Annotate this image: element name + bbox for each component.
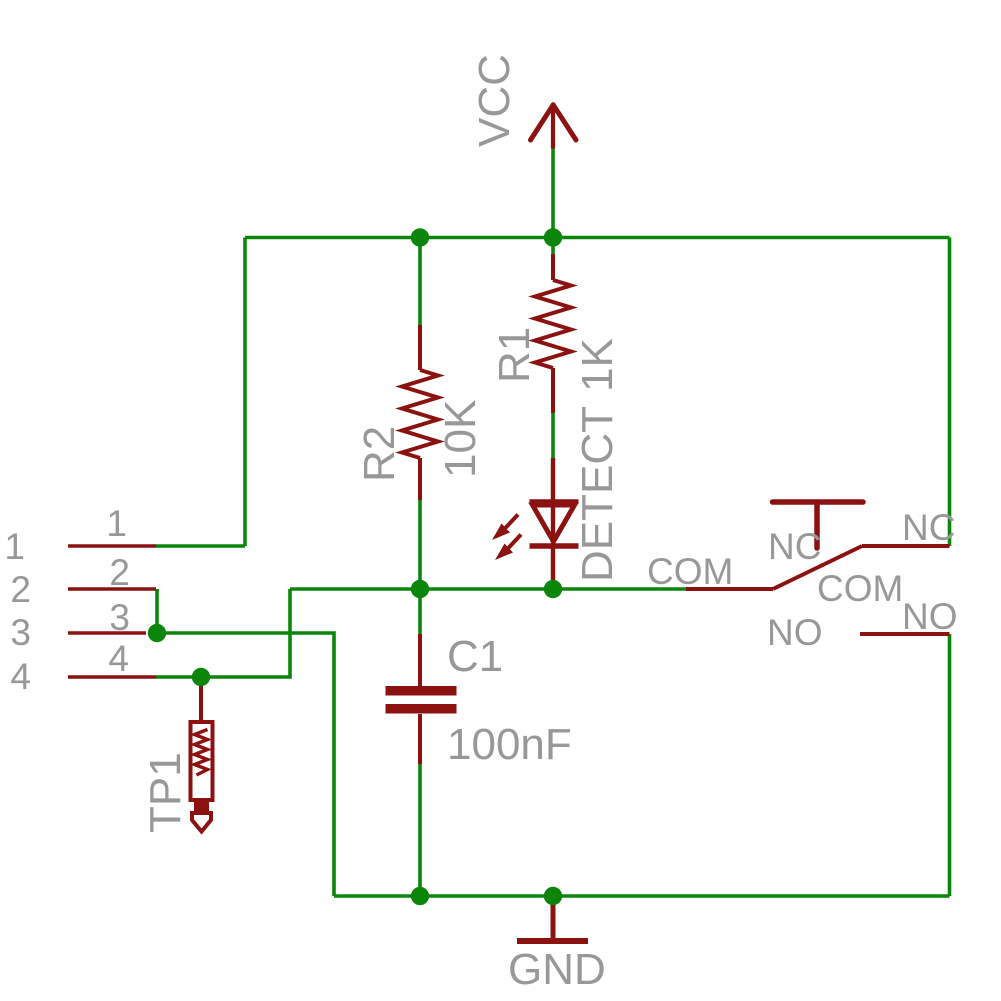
ground symbol GND <box>517 898 588 941</box>
svg-text:C1: C1 <box>447 632 503 681</box>
svg-text:NO: NO <box>902 596 958 637</box>
svg-text:TP1: TP1 <box>141 752 190 833</box>
svg-text:DETECT: DETECT <box>573 406 622 582</box>
svg-text:NC: NC <box>768 526 821 567</box>
pin 4 stub <box>68 675 156 679</box>
wire: right vertical NC net <box>948 238 952 547</box>
svg-text:100nF: 100nF <box>447 720 572 769</box>
svg-text:3: 3 <box>109 597 130 638</box>
capacitor C1 <box>386 634 457 764</box>
test point TP1 <box>191 686 213 800</box>
svg-text:R1: R1 <box>490 327 539 383</box>
wire: pin 3 net to bottom <box>157 633 334 896</box>
svg-text:COM: COM <box>817 568 903 609</box>
junction dot mid R2 <box>411 580 429 598</box>
svg-text:2: 2 <box>10 569 31 610</box>
wire: NO vertical to bottom <box>948 634 952 896</box>
svg-text:R2: R2 <box>355 426 404 482</box>
wire: bottom horizontal GND net <box>334 894 950 898</box>
wire: R2 column upper green <box>418 238 422 326</box>
connector pin stubs <box>68 546 156 677</box>
wire: pin 4 green segment <box>156 589 290 677</box>
svg-text:4: 4 <box>108 638 129 679</box>
wire: VCC stem green <box>551 147 555 238</box>
svg-text:VCC: VCC <box>470 54 519 147</box>
LED arrow head 1 <box>492 524 510 541</box>
pin 3 stub <box>68 631 146 635</box>
wire: R2 column lower green through mid net <box>418 500 422 634</box>
svg-text:COM: COM <box>647 551 733 592</box>
wire: left vertical from top wire down to pin 1 <box>243 238 247 547</box>
wire: green between R1 and LED <box>551 413 555 458</box>
pin 2 stub <box>68 587 156 591</box>
switch S1 microswitch <box>686 502 950 634</box>
svg-text:NC: NC <box>902 507 955 548</box>
svg-text:3: 3 <box>10 612 31 653</box>
LED D1 <box>504 458 579 589</box>
LED arrow head 2 <box>495 544 513 561</box>
svg-text:1K: 1K <box>573 338 622 392</box>
resistor R1 <box>535 254 571 413</box>
supply VCC arrow symbol <box>531 104 577 149</box>
junction dot mid LED <box>544 580 562 598</box>
junction dot pin3 <box>148 624 166 642</box>
junction dot bottom C1 <box>411 887 429 905</box>
TP1 collar <box>194 801 209 813</box>
wire: pin 1 green segment <box>156 544 245 548</box>
junction dot bottom GND <box>544 887 562 905</box>
svg-text:GND: GND <box>508 945 606 994</box>
TP1 probe tip <box>192 813 211 832</box>
svg-text:1: 1 <box>4 526 25 567</box>
wire: pin 2 vertical down to pin 3 net <box>155 589 159 633</box>
junction dot pin4/TP1 <box>192 668 210 686</box>
wire: top horizontal net VCC <box>245 236 950 240</box>
pin 1 stub <box>68 544 156 548</box>
resistor R2 <box>402 325 438 500</box>
svg-text:NO: NO <box>767 612 823 653</box>
wire: C1 bottom green <box>418 764 422 896</box>
svg-text:2: 2 <box>109 552 130 593</box>
svg-text:1: 1 <box>106 503 127 544</box>
junction dot top R2 <box>411 228 429 246</box>
wire: mid horizontal DETECT net <box>290 587 686 591</box>
wire: R1 top green stub <box>551 238 555 255</box>
junction dot top R1/VCC <box>544 228 562 246</box>
svg-text:10K: 10K <box>436 400 485 478</box>
svg-text:4: 4 <box>10 656 31 697</box>
